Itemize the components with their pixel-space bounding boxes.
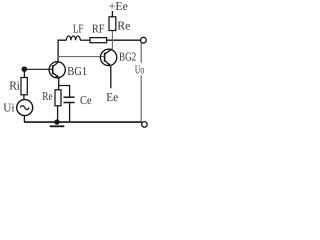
svg-text:BG1: BG1 <box>67 64 87 78</box>
wire: Ui bottom to rail <box>23 116 25 123</box>
ground rail <box>24 121 142 123</box>
capacitor Ce bottom plate <box>64 102 75 104</box>
wire: Ce bottom to rail <box>69 103 71 123</box>
transistor BG1 emitter diagonal <box>53 73 59 78</box>
junction dot on ground rail <box>54 119 59 124</box>
wire: Ri bottom to Ui <box>23 95 25 100</box>
junction dot at Ri top <box>22 66 28 72</box>
wire: emitter node over to Ce <box>59 86 70 98</box>
transistor BG2 emitter diagonal <box>105 60 111 66</box>
svg-text:RF: RF <box>92 22 105 36</box>
terminal: output top <box>141 37 147 43</box>
wire: emitter down to Re2 top <box>58 78 60 90</box>
svg-text:Ri: Ri <box>9 78 20 92</box>
transistor BG2 base bar <box>104 53 106 62</box>
wire: Re2 bottom to ground rail <box>57 106 59 122</box>
svg-text:Ui: Ui <box>3 101 15 115</box>
inductor LF coil <box>66 36 80 40</box>
transistor BG2 circle <box>100 49 116 65</box>
svg-text:Re: Re <box>42 89 52 103</box>
resistor Re2 (emitter, vertical box) <box>55 90 61 106</box>
svg-text:BG2: BG2 <box>119 49 136 63</box>
wire: +Ee supply lead <box>111 11 113 17</box>
wire: Uo vertical between terminals <box>140 43 142 122</box>
wire: BG1 collector to BG2 base coupling <box>58 56 105 58</box>
wire: Re bottom down to BG2 collector <box>111 31 113 49</box>
wire: between LF and RF <box>80 39 90 41</box>
ground bar <box>50 125 65 127</box>
wire: BG1 collector riser and top-left corner <box>58 40 66 62</box>
resistor RF (horizontal box) <box>90 38 107 43</box>
transistor BG2 collector diagonal <box>105 49 113 54</box>
capacitor Ce top plate <box>64 96 75 98</box>
terminal: output bottom <box>142 122 148 128</box>
source Ui sine <box>20 106 29 110</box>
transistor BG1 circle <box>49 62 65 78</box>
resistor Re (top, vertical box) <box>109 17 116 31</box>
label Uo <box>134 63 146 75</box>
svg-text:+Ee: +Ee <box>109 0 128 13</box>
wire: base from Ri node <box>24 68 52 70</box>
transistor BG1 collector diagonal <box>53 62 58 67</box>
wire: RF right end to output top terminal <box>107 39 141 41</box>
transistor BG2 emitter arrow <box>107 63 111 67</box>
svg-text:Uo: Uo <box>135 63 144 77</box>
transistor BG1 emitter arrow <box>56 75 60 79</box>
svg-text:LF: LF <box>73 21 84 35</box>
svg-text:Ce: Ce <box>80 93 92 107</box>
transistor BG1 base bar <box>52 65 54 74</box>
svg-text:Ee: Ee <box>106 90 118 104</box>
wire: dot to Ri top <box>23 69 25 77</box>
wire: BG2 emitter down to Ee <box>110 66 112 88</box>
resistor Ri (vertical box) <box>21 78 27 95</box>
label Ee <box>106 92 119 103</box>
source Ui circle <box>17 100 33 116</box>
svg-text:Re: Re <box>117 19 130 33</box>
